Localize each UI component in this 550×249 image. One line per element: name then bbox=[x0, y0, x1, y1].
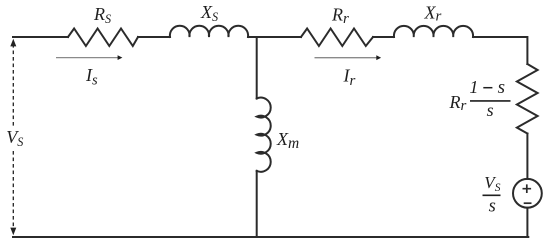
current arrow I_r bbox=[315, 55, 382, 60]
fraction minus bbox=[483, 87, 492, 89]
inductor X_m bbox=[257, 98, 271, 172]
wire middle branch upper bbox=[256, 38, 258, 99]
wire X_S to R_r through node bbox=[248, 36, 301, 38]
wire resistor to source bbox=[526, 134, 528, 179]
svg-text:Ir: Ir bbox=[343, 66, 356, 90]
fraction bar of V_S/s bbox=[483, 194, 501, 196]
plus sign in source bbox=[523, 184, 532, 203]
wire source to bottom bbox=[526, 208, 528, 237]
wire bottom bbox=[13, 236, 528, 238]
current arrow I_s bbox=[56, 55, 122, 60]
dashed V_S arrow bbox=[10, 39, 16, 235]
svg-text:s: s bbox=[487, 100, 494, 120]
svg-text:Xm: Xm bbox=[276, 129, 299, 152]
voltage source V_S/s circle bbox=[513, 179, 542, 208]
resistor R_r(1-s)/s vertical bbox=[517, 64, 538, 134]
svg-text:VS: VS bbox=[484, 173, 500, 194]
inductor X_r bbox=[394, 26, 473, 37]
svg-text:VS: VS bbox=[6, 127, 23, 149]
svg-text:RS: RS bbox=[93, 4, 111, 26]
svg-text:XS: XS bbox=[200, 2, 218, 24]
wire middle branch lower bbox=[256, 171, 258, 237]
resistor R_r bbox=[301, 29, 373, 47]
svg-text:s: s bbox=[498, 77, 505, 98]
svg-text:1: 1 bbox=[469, 77, 478, 97]
minus sign in source bbox=[524, 202, 532, 204]
svg-text:Rr: Rr bbox=[331, 5, 349, 27]
wire top-left segment bbox=[13, 36, 68, 38]
svg-text:Rr: Rr bbox=[449, 92, 467, 114]
resistor R_S bbox=[68, 29, 138, 47]
svg-text:Is: Is bbox=[85, 65, 98, 89]
svg-text:s: s bbox=[489, 196, 496, 216]
wire between R_r and X_r bbox=[373, 36, 394, 38]
inductor X_S bbox=[170, 26, 248, 37]
svg-text:Xr: Xr bbox=[424, 2, 442, 24]
fraction bar bbox=[470, 100, 511, 102]
wire between R_S and X_S bbox=[138, 36, 170, 38]
wire X_r to right corner bbox=[473, 37, 527, 64]
